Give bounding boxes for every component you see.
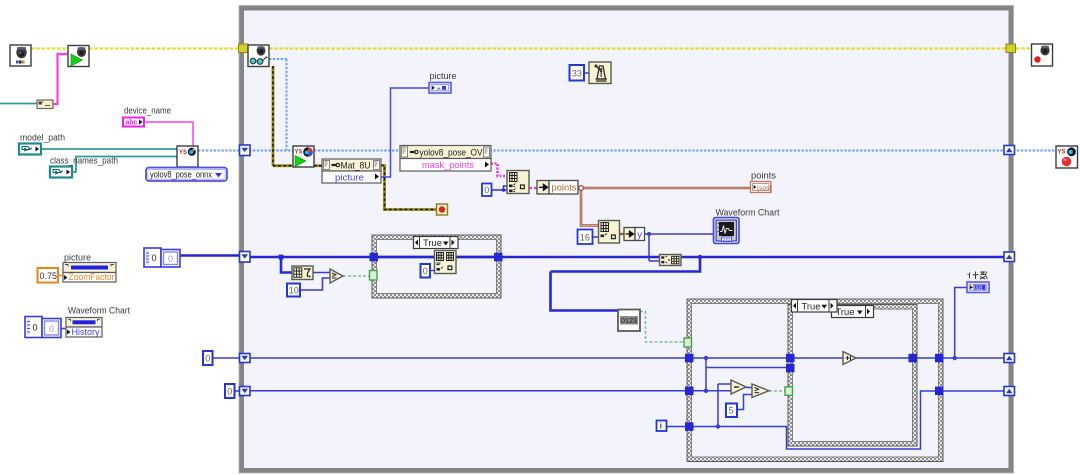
indicator: picture (image display refnum): [429, 83, 451, 94]
property node: Mat_8U / picture: [322, 159, 381, 184]
wire: vertical branch x706 between y358 and y390: [706, 358, 788, 391]
function: Index Array 1: [507, 171, 529, 194]
svg-text:points: points: [552, 183, 577, 194]
wire: int y390.5 across to minus: [234, 390, 240, 392]
shift register left y358: [240, 354, 251, 363]
wire: thick blue down-left loop to Empty Array?: [551, 257, 701, 311]
svg-text:picture: picture: [335, 173, 364, 184]
svg-text:YS: YS: [295, 150, 303, 156]
tunnel: yellow left: [239, 44, 249, 53]
VI icon: YS init (yolov8 session create): [177, 146, 198, 167]
wire: brown cluster array points local to points indicator: [578, 187, 751, 190]
svg-text:True: True: [423, 238, 442, 249]
svg-text:model_path: model_path: [20, 133, 65, 144]
svg-text:5: 5: [729, 406, 734, 416]
wire: boolean green dashed Empty Array? to outer case selector: [640, 312, 687, 343]
VI icon: YS run (yolov8 run + green play): [293, 146, 314, 167]
svg-text:History: History: [72, 327, 100, 338]
svg-text:yolov8_pose_OV: yolov8_pose_OV: [420, 148, 484, 159]
wire: Mat object dark-yellow from glasses VI down to YS run and Mat_8U to dispose: [273, 66, 437, 210]
shift register left y256: [240, 252, 251, 263]
node junction dot after interleave: [698, 255, 702, 259]
svg-text:YS: YS: [1058, 150, 1066, 156]
svg-text:0: 0: [423, 266, 428, 276]
constant: 16: [578, 230, 593, 245]
svg-text:16: 16: [580, 232, 590, 242]
VI icon: IMAQ Create (camera, "new"): [10, 45, 31, 66]
svg-text:Mat_8U: Mat_8U: [341, 161, 371, 172]
case structure CS-inner (nested, True): [788, 305, 917, 447]
svg-text:0: 0: [205, 354, 210, 364]
constant: 5: [726, 404, 737, 418]
tunnel: CS1 right blue: [494, 253, 503, 261]
wire: history array to History node: [61, 328, 66, 330]
tunnel: inner case left y358: [786, 354, 795, 363]
constant: 0 (index array 1): [482, 184, 492, 197]
tunnel: yellow right: [1006, 44, 1016, 53]
label: 计数 (count): [968, 272, 988, 280]
shift register right y256: [1004, 252, 1015, 262]
wire: light blue dashed session inside loop: [249, 59, 1056, 151]
constant: 0 (y391): [225, 384, 235, 398]
tunnel: outer case left y358: [685, 354, 694, 363]
node: IMAQ dispose (small red dot): [437, 204, 448, 215]
selector label: CS1 "True": [414, 237, 459, 250]
terminal: Waveform Chart indicator: [714, 218, 740, 244]
svg-text:points: points: [751, 171, 776, 182]
VI icon: IMAQ close (camera + red dot): [1032, 44, 1053, 66]
tunnel: inner case left y367: [786, 364, 795, 373]
wire: pink string device_name to YS init: [144, 122, 193, 146]
tunnel: outer case selector green: [684, 338, 692, 347]
wire: 33 to wait metronome: [584, 72, 589, 74]
svg-text:0: 0: [484, 185, 489, 195]
wire: Index Array 2 to y local (cluster brown short): [619, 233, 624, 235]
function: Empty Array?: [618, 310, 640, 332]
shift register right y150: [1004, 146, 1015, 155]
case structure CS1 (top middle, True): [372, 235, 501, 298]
wire: y local to Waveform Chart and down to interleave: [644, 234, 714, 261]
wire: magenta dashed Index Array 1 to points local: [529, 187, 538, 189]
svg-text:0: 0: [49, 324, 54, 334]
shift register right y358: [1004, 354, 1015, 363]
wire: pink string path-to-string to IMAQ start: [53, 54, 68, 104]
function: subtract: [731, 380, 746, 394]
VI icon: IMAQ Start (camera + green play): [68, 46, 89, 67]
wire: light blue dashed session YS init to loop tunnel: [198, 150, 240, 152]
wire: boolean green dashed comparator to CS1 selector: [343, 275, 370, 277]
svg-text:Waveform Chart: Waveform Chart: [68, 306, 130, 317]
function: interleave/build on thick wire: [660, 255, 682, 266]
wire: model_path teal to YS init: [41, 148, 177, 150]
tunnel: CS1 left blue: [370, 253, 379, 261]
function: greater or equal 2: [752, 384, 769, 398]
constant: 0 (y358): [203, 351, 213, 365]
svg-text:True: True: [836, 307, 855, 318]
svg-text:0123: 0123: [621, 316, 637, 325]
tunnel: outer case left y391: [685, 387, 694, 396]
wire: 0 constant to Replace Array Subset: [431, 270, 436, 272]
property node: Waveform Chart History: [66, 318, 102, 338]
indicator: 计数 I32: [967, 282, 989, 293]
shift register left y391: [240, 387, 251, 396]
function: increment +1: [843, 352, 856, 365]
svg-text:10: 10: [289, 286, 299, 296]
wire: int y358 across loop: [212, 357, 240, 359]
wire: Array Size output to greater-or-equal: [313, 272, 330, 274]
svg-text:abc: abc: [126, 120, 138, 127]
function: Index Array 2: [599, 221, 620, 244]
while loop (main) interior and border: [242, 8, 1012, 471]
svg-text:0: 0: [33, 323, 38, 333]
wire: class_names_path teal to YS init: [72, 157, 177, 173]
wire: branch down to Array Size: [281, 257, 292, 273]
property node: picture ZoomFactor: [63, 263, 116, 284]
shift register left y150: [240, 145, 251, 156]
wire: 16 constant to Index Array 2: [592, 236, 599, 238]
svg-text:33: 33: [572, 69, 582, 79]
terminal: loop iteration i: [657, 421, 667, 432]
array constant 2 (history): [25, 317, 61, 338]
wire: minus output to ge2 input: [746, 387, 752, 389]
svg-text:y: y: [637, 230, 642, 241]
svg-text:YS: YS: [179, 150, 187, 156]
svg-text:yolov8_pose_onnx: yolov8_pose_onnx: [150, 170, 212, 180]
constant: 0 (CS1): [421, 264, 431, 278]
tunnel: inner case selector green: [785, 387, 793, 396]
svg-text:picture: picture: [430, 71, 457, 82]
svg-text:device_name: device_name: [124, 106, 171, 117]
svg-text:True: True: [802, 301, 821, 312]
shift register right y391: [1004, 387, 1015, 396]
node junction dot: [502, 188, 506, 192]
tunnel: outer case right y391: [935, 387, 944, 396]
svg-text:mask_points: mask_points: [422, 160, 474, 171]
function: Replace Array Subset (in CS1): [435, 251, 457, 274]
wire: 10 constant up to comparator: [300, 278, 330, 290]
svg-text:class_names_path: class_names_path: [50, 156, 118, 167]
constant: 0.75 (orange): [38, 268, 59, 283]
svg-text:0.75: 0.75: [40, 271, 58, 281]
wire: thick int-array blue main horizontal from array const to right tunnel: [180, 254, 240, 257]
svg-text:0: 0: [152, 253, 157, 263]
function: Array Size: [292, 266, 313, 280]
terminal: device_name string control (abc): [123, 118, 144, 127]
node junction dot: [647, 232, 651, 236]
node: Path To String conversion: [37, 100, 53, 109]
constant: 33: [570, 65, 585, 81]
selector label: inner case "True": [832, 306, 874, 319]
svg-text:I32]: I32]: [974, 285, 983, 291]
wire: x718 vertical from y426 wire to minus top input: [718, 384, 731, 427]
wire: boolean ge2 to inner case selector: [769, 390, 785, 392]
subVI node: yolov8_pose_OV / mask_points: [400, 146, 491, 172]
array constant 1 (top, to shift register): [144, 248, 180, 267]
svg-text:picture: picture: [64, 253, 91, 264]
svg-text:ZoomFactor: ZoomFactor: [69, 272, 115, 283]
tunnel: CS1 selector green: [370, 271, 378, 281]
svg-text:0: 0: [168, 254, 173, 264]
wire: re-draw inside CS1: [378, 256, 495, 259]
selector label: outer case "True": [792, 300, 838, 313]
function: Greater Or Equal? (top): [330, 269, 343, 283]
svg-text:0: 0: [227, 387, 232, 397]
tunnel: outer case left y426: [685, 422, 694, 431]
function: Wait (ms) metronome: [589, 62, 611, 84]
wire: brown branch down to Index Array 2: [581, 188, 599, 226]
wire: picture royal blue from Mat_8U up to picture indicator: [381, 88, 429, 177]
constant: yolov8_pose_onnx ring dropdown: [146, 168, 227, 182]
indicator: points array: [751, 182, 772, 193]
VI icon: IMAQ get image (camera + glasses): [248, 45, 269, 67]
wire: index 0 constant to Index Array 1: [491, 186, 507, 190]
VI icon: YS close (red circle): [1056, 146, 1078, 168]
wire: path teal from left edge to path-to-string node: [0, 103, 37, 105]
wire: IMAQ session yellow dashed, outside left: [31, 47, 239, 49]
svg-text:i: i: [660, 422, 662, 431]
wire: counter indicator branch: [955, 288, 967, 359]
node junction circle on points wire: [579, 186, 584, 191]
tunnel: outer case right y358: [935, 354, 944, 363]
wire: mask_points magenta zigzag: [491, 164, 507, 177]
tunnel: inner case right y358: [909, 354, 918, 363]
constant: 10: [287, 284, 300, 297]
svg-text:231: 231: [723, 237, 731, 242]
wire: 5 constant to ge2: [737, 395, 752, 410]
case structure CS-outer (bottom right, True): [687, 299, 943, 462]
local variable: y (write): [624, 228, 645, 241]
wire: IMAQ session yellow dashed, inside loop and to close VI: [248, 47, 1032, 49]
wire: 0.75 orange to ZoomFactor: [58, 275, 64, 277]
local variable: points (write): [537, 181, 578, 195]
svg-text:[sos]: [sos]: [757, 185, 771, 192]
terminal: class_names_path control: [50, 167, 72, 178]
terminal: model_path control: [19, 144, 41, 155]
wire: i terminal along y426 right, down and around inner case to outer right tunnel: [666, 391, 1007, 449]
